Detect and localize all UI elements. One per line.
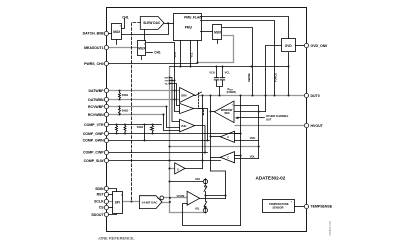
wire VOH VOL reference column xyxy=(258,106,260,159)
svg-text:500Ω: 500Ω xyxy=(137,125,143,129)
svg-text:SPI: SPI xyxy=(115,200,120,204)
wire CH1 select into MUX1 xyxy=(122,19,125,29)
wire buffer output column xyxy=(211,111,215,113)
svg-text:ADATE302-02: ADATE302-02 xyxy=(256,176,286,181)
arrow IOH xyxy=(204,178,206,181)
svg-text:OVD_ON0: OVD_ON0 xyxy=(311,44,328,48)
svg-text:CS: CS xyxy=(99,206,105,210)
svg-text:COMP_GWN: COMP_GWN xyxy=(83,139,104,143)
amp A3 VHH xyxy=(180,119,195,132)
wire COMP_GWP line to C1 xyxy=(107,133,241,135)
resistor term comp 1 xyxy=(116,125,118,134)
wire value labels xyxy=(122,52,289,211)
svg-text:COMP_SLW: COMP_SLW xyxy=(84,159,105,163)
wire level bus L2 xyxy=(170,66,289,68)
wire VCOM input xyxy=(164,197,188,199)
wire MUX1 bottom stub xyxy=(116,40,118,45)
svg-text:VOL: VOL xyxy=(250,155,256,159)
svg-text:OVD: OVD xyxy=(285,44,293,48)
svg-text:SCLK: SCLK xyxy=(94,200,104,204)
wire slew dac to MUX3 xyxy=(144,30,146,41)
svg-text:500Ω: 500Ω xyxy=(122,93,128,97)
vcom amp A4 xyxy=(187,191,200,205)
current source IOL xyxy=(203,208,207,212)
resistor term comp 2 xyxy=(124,125,126,134)
svg-text:PWRS_CH0: PWRS_CH0 xyxy=(84,62,104,66)
pin SDIN xyxy=(104,186,108,190)
wire to C1 apex xyxy=(211,136,221,138)
window comparator buffer U6 xyxy=(214,101,234,123)
mux U1 xyxy=(112,24,122,40)
svg-text:IOH: IOH xyxy=(195,177,200,181)
wire PMU force line xyxy=(201,21,275,96)
svg-text:REF.: REF. xyxy=(225,111,231,115)
mux U4 xyxy=(213,25,222,40)
svg-text:RCVWBP: RCVWBP xyxy=(88,105,104,109)
pin DATWBP xyxy=(104,88,108,92)
gray analog bus wires xyxy=(107,36,305,213)
svg-text:SENSOR: SENSOR xyxy=(273,206,284,210)
connection circle other channel xyxy=(160,196,164,200)
svg-text:PMU: PMU xyxy=(185,26,193,30)
wire DAC level stub 3 to amp2 upper xyxy=(170,84,180,106)
wire IOH feed from bus xyxy=(170,181,204,183)
right pin labels xyxy=(311,44,333,208)
svg-text:VHH: VHH xyxy=(181,124,187,128)
wire S output to sense column xyxy=(185,168,203,170)
svg-text:MUX: MUX xyxy=(214,31,222,35)
chip boundary xyxy=(107,8,307,232)
svg-text:OTHER CHANNEL: OTHER CHANNEL xyxy=(266,114,289,118)
ovd block U5 xyxy=(282,39,296,52)
wire rcv pair line N xyxy=(107,114,164,116)
svg-text:SENSE: SENSE xyxy=(247,73,251,82)
temperature sensor U8 xyxy=(263,200,295,213)
svg-text:RCVWBN: RCVWBN xyxy=(88,113,104,117)
pin SDOUT xyxy=(104,212,108,216)
svg-text:DATWBN: DATWBN xyxy=(88,98,104,102)
capacitor VCH branch xyxy=(216,67,218,78)
svg-text:IOL: IOL xyxy=(195,207,200,211)
svg-text:S: S xyxy=(177,168,179,172)
wire VCOM output xyxy=(200,198,226,200)
resistor term 50ohm rcv xyxy=(119,107,121,115)
svg-text:DATWBP: DATWBP xyxy=(88,89,104,93)
wire pin1 to MUX1 xyxy=(107,33,112,35)
pmu block U2 xyxy=(174,14,202,41)
svg-text:PMU_FLAG: PMU_FLAG xyxy=(184,15,202,19)
wire SCLK into SPI xyxy=(107,201,113,203)
resistor term 50ohm data xyxy=(119,91,121,100)
svg-text:COMP_VTR: COMP_VTR xyxy=(84,123,104,127)
svg-text:1ONE REFERENCE.: 1ONE REFERENCE. xyxy=(98,235,135,240)
svg-text:HVOUT: HVOUT xyxy=(311,124,324,128)
wire OVD left branch xyxy=(266,46,282,112)
wire RST xyxy=(107,194,113,196)
svg-text:FORCE: FORCE xyxy=(274,73,278,82)
wire VCOM feedback loop xyxy=(183,204,241,226)
svg-text:VCS: VCS xyxy=(173,52,177,58)
left pin labels xyxy=(83,31,105,217)
svg-text:MUX: MUX xyxy=(113,30,121,34)
wire SDIN xyxy=(107,189,117,192)
wire MUX4 bottom stub xyxy=(217,40,219,44)
wire buffer in from dut xyxy=(235,111,266,113)
svg-text:VOH: VOH xyxy=(250,136,256,140)
svg-text:VCL: VCL xyxy=(190,52,194,58)
wire COMP_GWN line xyxy=(107,140,210,142)
svg-text:CH1: CH1 xyxy=(154,51,161,55)
wire MUX3 bottom stub xyxy=(141,57,143,60)
switch contact IOL xyxy=(205,206,207,208)
wire dut feedback column xyxy=(240,96,242,226)
wire MUX4 lower output U path xyxy=(198,36,234,63)
mux U3 xyxy=(138,41,146,56)
switch below IOH xyxy=(205,186,207,188)
wire C1 VOH line xyxy=(235,140,259,142)
channel divider dashed line xyxy=(132,23,141,202)
svg-text:SLEW DAC: SLEW DAC xyxy=(143,21,161,25)
wire PMU to MUX4 xyxy=(201,31,213,33)
svg-text:OUT: OUT xyxy=(266,118,272,122)
wire MUX1 output to slew dac node xyxy=(122,24,169,35)
wire PMU flag line to OVD top xyxy=(201,17,289,39)
switch above IOL xyxy=(204,196,206,202)
arrow IOL xyxy=(204,207,206,210)
wire SPI to 14-BIT DAC xyxy=(123,201,140,203)
wire C1 upper tap xyxy=(235,133,241,135)
pin COMP_GWN xyxy=(104,138,108,142)
wire DAC output xyxy=(162,202,170,204)
wire MEASOUT to MUX3 xyxy=(107,47,138,49)
switch at driver output xyxy=(195,95,196,97)
amp A2 xyxy=(180,103,194,113)
wire DAC level stub 2 to amp2 lower xyxy=(170,81,180,112)
arrow into window buffer xyxy=(235,117,239,120)
svg-text:VCH: VCH xyxy=(209,70,215,74)
pin DUT0 xyxy=(304,93,308,97)
pin DATWBN xyxy=(104,97,108,101)
wire rcv corner N xyxy=(164,115,180,131)
wire data pair line N xyxy=(107,99,180,101)
svg-text:(FIXED): (FIXED) xyxy=(227,90,237,94)
svg-text:MUX: MUX xyxy=(138,47,146,51)
svg-text:SDOUT: SDOUT xyxy=(91,213,104,217)
svg-text:CH1: CH1 xyxy=(122,15,129,19)
wire data pair line P xyxy=(107,90,180,92)
pin COMP_CWP xyxy=(104,150,108,154)
wire OVD bottom to dut line xyxy=(288,53,290,96)
wire C2 upper tap xyxy=(235,155,241,157)
pin COMP_GWP xyxy=(104,131,108,135)
wire DAC level stub 1 to VHH amp xyxy=(170,78,180,122)
pin OVD_ON0 xyxy=(304,43,308,47)
wire load commutation xyxy=(211,171,226,199)
svg-text:DRV: DRV xyxy=(181,93,187,97)
wire buffer upper stub xyxy=(235,105,259,107)
pin CS xyxy=(104,205,108,209)
wire load node xyxy=(205,195,225,197)
pin HVOUT xyxy=(304,123,308,127)
svg-text:DATCH_B0B: DATCH_B0B xyxy=(83,31,104,35)
wire comparator level line xyxy=(170,146,259,148)
svg-text:14-BIT DAC: 14-BIT DAC xyxy=(142,200,159,204)
wire HVOUT line xyxy=(235,125,305,127)
svg-text:C: C xyxy=(227,156,229,160)
comparator C2 xyxy=(220,152,234,163)
wire rcv corner P xyxy=(167,107,180,128)
wire A3 output down xyxy=(195,126,206,153)
wire slew dac output into PMU xyxy=(165,23,174,25)
wire COMP_SLW line xyxy=(107,160,221,162)
svg-text:VCOM: VCOM xyxy=(177,194,185,198)
pin SCLK xyxy=(104,199,108,203)
pin circles left xyxy=(104,31,308,216)
svg-text:TEMPERATURE: TEMPERATURE xyxy=(269,202,289,206)
pin RST xyxy=(104,192,108,196)
wire PMU col2 xyxy=(190,41,192,67)
wire to C2 apex xyxy=(211,157,221,159)
resistor term comp 3 xyxy=(151,125,154,134)
wire driver sense down xyxy=(202,96,204,169)
svg-text:DUT0: DUT0 xyxy=(311,94,320,98)
wire other channel input with arrow xyxy=(238,117,265,119)
svg-text:MEASOUT1: MEASOUT1 xyxy=(84,46,104,50)
slew dac D1 xyxy=(140,17,164,30)
wire MUX4 sense output xyxy=(223,28,253,96)
wire CS xyxy=(107,207,113,209)
pin COMP_SLW xyxy=(104,158,108,162)
pin PWRS_CH0 xyxy=(104,61,108,65)
wire SDOUT xyxy=(107,214,117,215)
svg-text:TEMPSENSE: TEMPSENSE xyxy=(311,204,333,208)
wire rcv pair line P xyxy=(107,106,167,108)
capacitor VCH plates xyxy=(214,77,218,79)
capacitor VCL plates xyxy=(220,77,224,79)
wire COMP_CWP line xyxy=(107,152,208,154)
pin DATCH_B0B xyxy=(104,31,108,35)
pin MEASOUT1 xyxy=(104,45,108,49)
svg-text:VCL: VCL xyxy=(225,70,231,74)
pin RCVWBN xyxy=(104,112,108,116)
svg-text:500Ω: 500Ω xyxy=(122,109,128,113)
wire VTH tap down xyxy=(144,125,146,141)
wire dut output line xyxy=(199,95,305,97)
svg-text:COMP_CWP: COMP_CWP xyxy=(83,151,104,155)
wire MUX3 output to clamp column xyxy=(147,43,175,81)
wire COMP_VTH line xyxy=(107,124,162,126)
wire PMU col1 xyxy=(180,41,182,67)
svg-text:08302-001: 08302-001 xyxy=(328,220,332,235)
wire DAC bus vertical xyxy=(170,67,206,213)
wire temp sensor to pin xyxy=(295,206,305,208)
wire PWRS line into PMU xyxy=(107,41,198,64)
wire A2 output down xyxy=(194,109,208,141)
dashed hiz control xyxy=(199,93,204,116)
driver amp A1 xyxy=(180,88,195,103)
wire OVD to pin xyxy=(296,45,305,47)
svg-text:SDIN: SDIN xyxy=(95,187,104,191)
pin COMP_VTR xyxy=(104,122,108,126)
current source IOH xyxy=(203,179,207,183)
pin TEMPSENSE xyxy=(304,204,308,208)
dac D2 14-bit xyxy=(139,196,162,209)
pin RCVWBP xyxy=(104,104,108,108)
wire C2 VOL line xyxy=(235,158,259,160)
wire CH1 select MUX3 xyxy=(147,52,153,54)
capacitor VCL branch xyxy=(222,67,224,78)
comparator C1 xyxy=(220,131,234,142)
svg-text:VIH: VIH xyxy=(164,77,168,79)
spi block U7 xyxy=(113,192,123,214)
buffer S xyxy=(175,163,185,174)
svg-text:COMP_GWP: COMP_GWP xyxy=(83,132,104,136)
block labels xyxy=(113,15,293,209)
wire caps join xyxy=(217,80,223,86)
svg-text:C: C xyxy=(227,135,229,139)
wire S buffer input xyxy=(170,168,175,170)
svg-text:RST: RST xyxy=(97,193,105,197)
